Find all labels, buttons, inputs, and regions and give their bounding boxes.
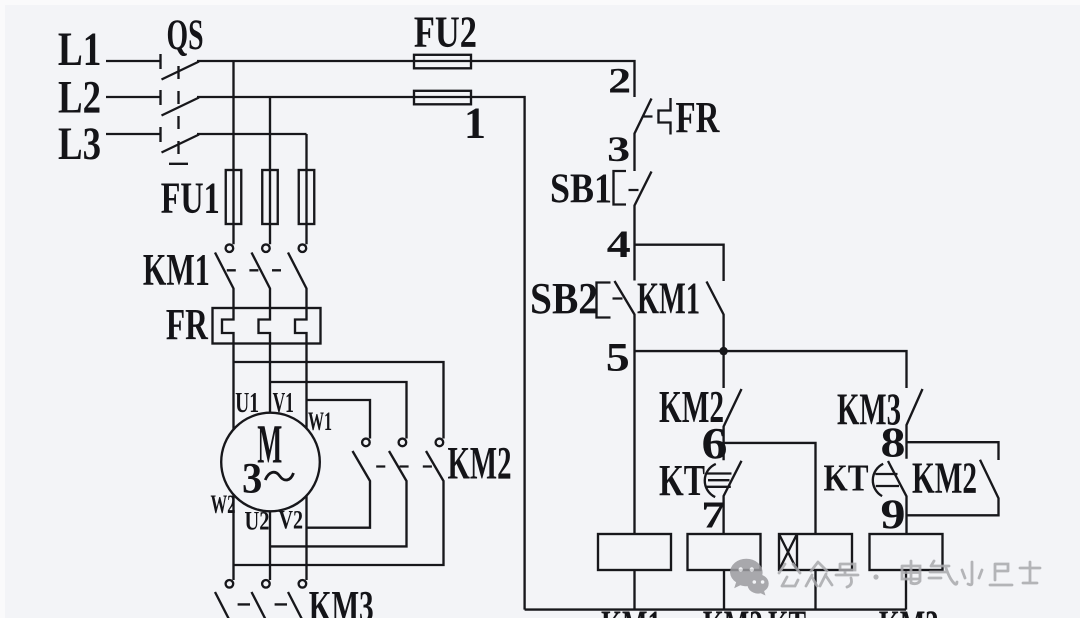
svg-text:KM3: KM3: [837, 385, 901, 435]
svg-text:KM1: KM1: [143, 245, 210, 295]
svg-text:FU1: FU1: [161, 173, 220, 222]
svg-text:KM3: KM3: [309, 582, 374, 618]
svg-text:L2: L2: [58, 72, 101, 124]
svg-text:U2: U2: [245, 507, 270, 536]
svg-text:FR: FR: [166, 300, 209, 349]
svg-text:FR: FR: [676, 93, 721, 142]
svg-text:KM2: KM2: [448, 438, 512, 490]
svg-text:4: 4: [607, 223, 631, 266]
svg-text:3: 3: [242, 456, 262, 503]
svg-text:5: 5: [606, 335, 630, 380]
svg-text:KM2: KM2: [703, 603, 763, 618]
svg-text:SB2: SB2: [530, 274, 598, 323]
svg-text:U1: U1: [235, 387, 259, 419]
svg-text:KM3: KM3: [879, 603, 939, 618]
svg-text:3: 3: [607, 129, 630, 169]
svg-text:KM2: KM2: [912, 454, 977, 503]
svg-text:KM1: KM1: [637, 274, 700, 324]
svg-text:2: 2: [608, 61, 631, 101]
svg-text:KT: KT: [824, 458, 869, 500]
svg-text:1: 1: [464, 99, 486, 148]
svg-text:KT: KT: [659, 456, 705, 505]
svg-text:KM2: KM2: [659, 381, 724, 432]
svg-text:L3: L3: [58, 118, 101, 170]
svg-text:W2: W2: [211, 490, 236, 519]
svg-text:V2: V2: [279, 506, 304, 535]
svg-text:KM1: KM1: [601, 603, 661, 618]
svg-text:FU2: FU2: [414, 8, 477, 57]
svg-text:SB1: SB1: [550, 167, 612, 213]
svg-text:9: 9: [881, 493, 906, 539]
svg-text:L1: L1: [58, 23, 102, 76]
svg-text:W1: W1: [308, 407, 332, 436]
svg-text:KT: KT: [768, 603, 806, 618]
svg-text:QS: QS: [167, 12, 204, 59]
